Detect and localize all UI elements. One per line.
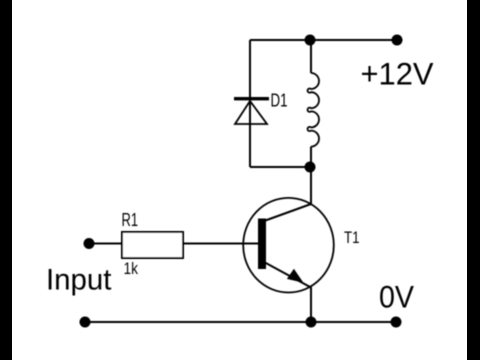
transistor T1 collector stroke xyxy=(264,204,311,221)
wire: collector/coil vertical top xyxy=(310,40,312,73)
transistor T1 base bar xyxy=(258,219,266,270)
wire: input to resistor xyxy=(89,243,122,245)
svg-text:1k: 1k xyxy=(124,260,139,278)
diode D1 triangle xyxy=(235,101,267,124)
wire: emitter down to 0V rail xyxy=(310,287,312,322)
terminal node: 0V xyxy=(391,317,402,328)
terminal node: +12V xyxy=(392,35,403,46)
svg-text:0V: 0V xyxy=(379,278,414,314)
diode D1 cathode bar xyxy=(234,97,269,100)
terminal node: Input xyxy=(84,238,95,249)
junction node: loop bottom / collector xyxy=(305,162,316,173)
resistor R1 body xyxy=(122,232,183,258)
junction node: emitter / rail xyxy=(306,317,317,328)
junction node: top rail / coil xyxy=(305,35,316,46)
wire: +12V top rail xyxy=(250,39,397,41)
wire: diode branch vertical xyxy=(249,40,251,167)
transistor T1 emitter arrow xyxy=(288,270,303,282)
wire: 0V bottom rail xyxy=(85,321,396,323)
svg-text:Input: Input xyxy=(46,264,112,297)
wire: resistor to base xyxy=(183,243,259,245)
svg-text:R1: R1 xyxy=(122,210,139,230)
transistor T1 emitter stroke xyxy=(264,262,311,288)
right black pillarbox bar xyxy=(467,0,480,360)
svg-text:+12V: +12V xyxy=(361,56,434,92)
svg-text:T1: T1 xyxy=(344,229,360,247)
wire: coil bottom to collector xyxy=(310,147,312,205)
transistor T1 circle xyxy=(243,198,334,293)
wire: loop bottom horizontal xyxy=(250,166,310,168)
inductor L1 coil xyxy=(308,73,319,147)
svg-text:D1: D1 xyxy=(271,90,288,111)
terminal node: rail left xyxy=(80,317,91,328)
left black pillarbox bar xyxy=(0,0,12,360)
